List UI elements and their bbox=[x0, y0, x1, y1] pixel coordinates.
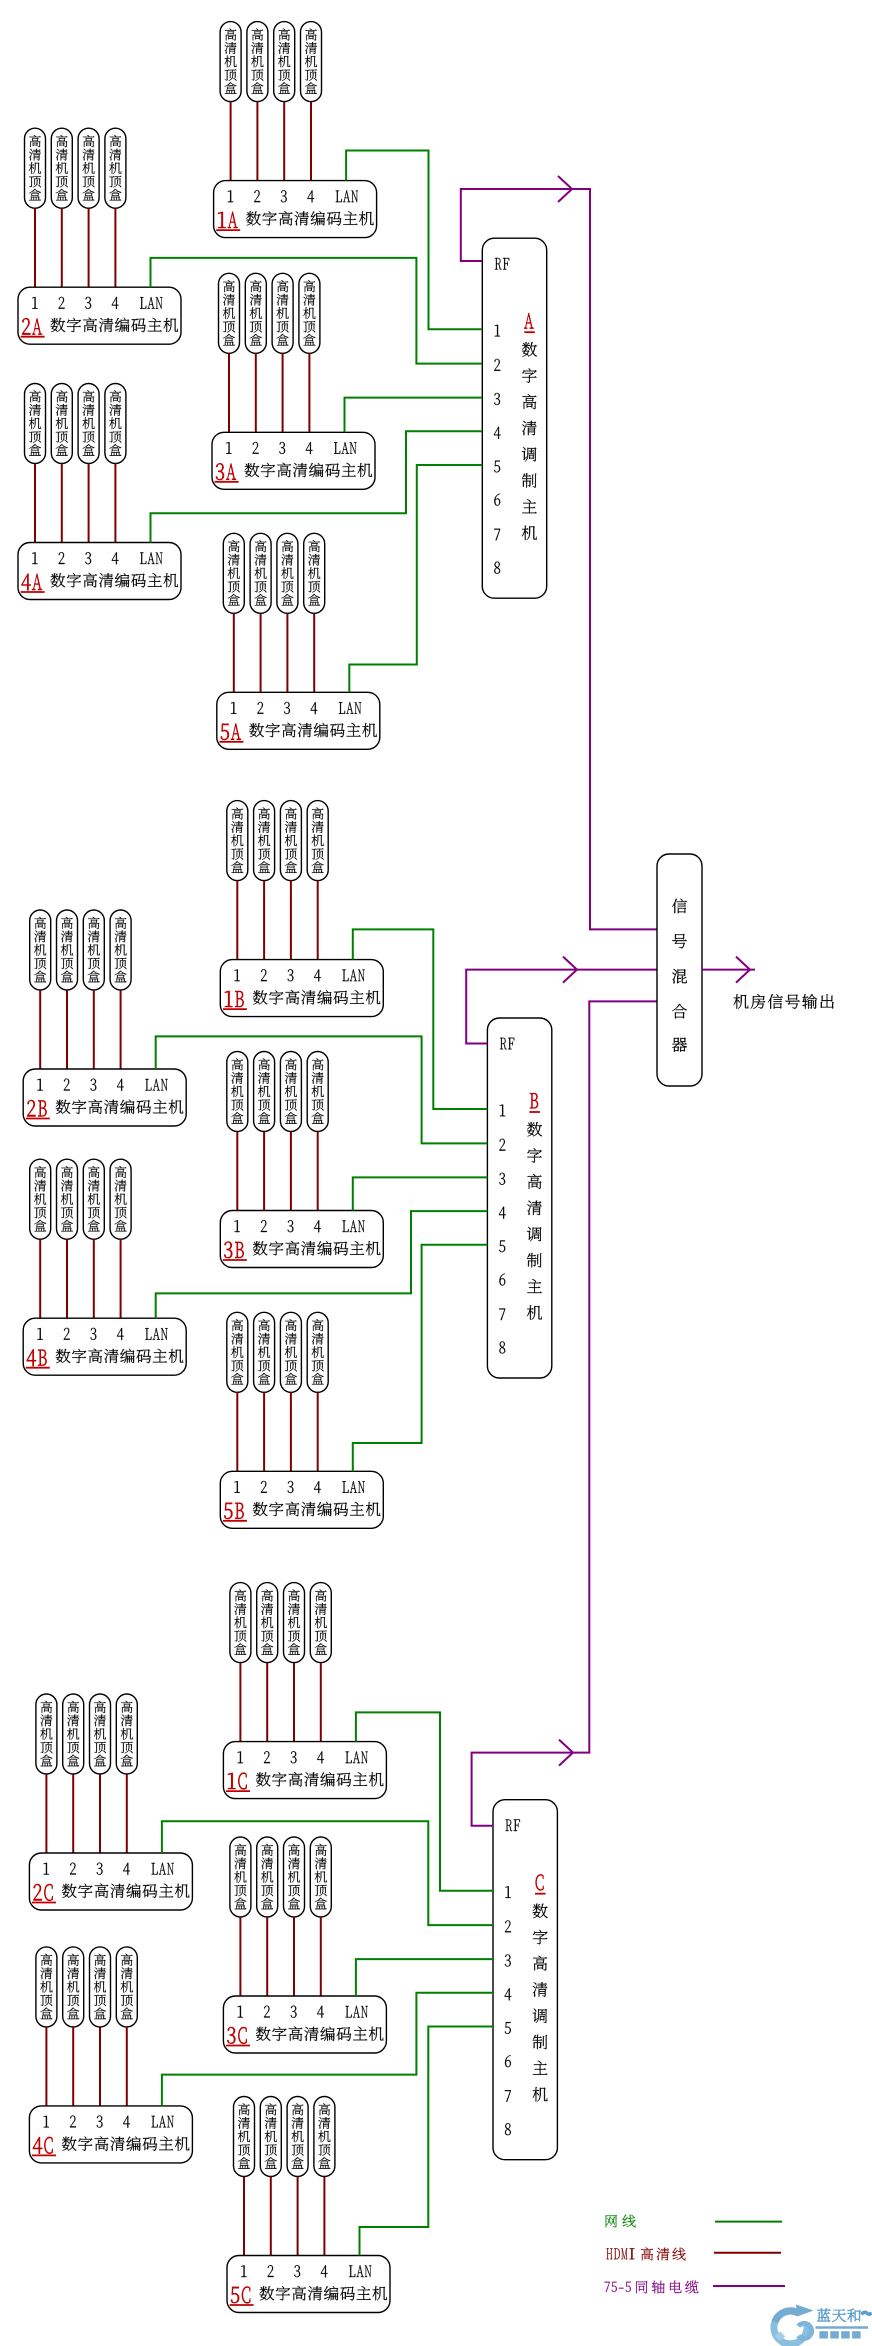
network cable 2B LAN → modulator B port 2 bbox=[156, 1036, 488, 1143]
watermark divider line bbox=[816, 2326, 869, 2329]
set-top boxes 高清机顶盒 ×4 above encoder 1C bbox=[230, 1583, 331, 1663]
encoder 1C 数字高清编码主机 (box with ports 1-4, LAN) bbox=[223, 1742, 386, 1799]
network cable 3A LAN → modulator A port 3 bbox=[345, 398, 483, 433]
encoder 2B 数字高清编码主机 (box with ports 1-4, LAN) bbox=[23, 1069, 186, 1126]
set-top boxes 高清机顶盒 ×4 above encoder 4C bbox=[36, 1947, 137, 2027]
watermark logo ring (light blue swirl) bbox=[774, 2311, 807, 2344]
set-top boxes 高清机顶盒 ×4 above encoder 4A bbox=[25, 384, 126, 464]
set-top boxes 高清机顶盒 ×4 above encoder 3B bbox=[227, 1052, 328, 1132]
network cable 5B LAN → modulator B port 5 bbox=[353, 1245, 488, 1472]
watermark inner small swirl bbox=[798, 2324, 811, 2339]
HDMI cables from set-top boxes into encoder 2A ports 1-4 bbox=[35, 208, 115, 287]
HDMI cables from set-top boxes into encoder 3C ports 1-4 bbox=[240, 1917, 320, 1996]
encoder 2C 数字高清编码主机 (box with ports 1-4, LAN) bbox=[29, 1853, 192, 1910]
network cable 1A LAN → modulator A port 1 bbox=[346, 151, 482, 330]
HDMI cables from set-top boxes into encoder 1A ports 1-4 bbox=[231, 102, 311, 181]
set-top boxes 高清机顶盒 ×4 above encoder 1B bbox=[227, 801, 328, 881]
set-top boxes 高清机顶盒 ×4 above encoder 3A bbox=[219, 273, 320, 353]
modulator C 数字高清调制主机 (RF out, ports 1-8) bbox=[493, 1800, 557, 2160]
coax 75-5 modulator B RF → mixer middle input bbox=[466, 970, 657, 1044]
set-top boxes 高清机顶盒 ×4 above encoder 2C bbox=[36, 1694, 137, 1774]
arrowhead on coax A bbox=[558, 176, 572, 202]
network cable 4B LAN → modulator B port 4 bbox=[156, 1211, 488, 1318]
watermark wavy tail bbox=[862, 2312, 872, 2314]
network cable 1C LAN → modulator C port 1 bbox=[356, 1712, 493, 1890]
legend line network cable bbox=[715, 2221, 782, 2223]
HDMI cables from set-top boxes into encoder 5A ports 1-4 bbox=[234, 613, 314, 692]
encoder 5C 数字高清编码主机 (box with ports 1-4, LAN) bbox=[227, 2256, 390, 2313]
encoder 3C 数字高清编码主机 (box with ports 1-4, LAN) bbox=[223, 1996, 386, 2053]
HDMI cables from set-top boxes into encoder 5B ports 1-4 bbox=[237, 1392, 317, 1471]
set-top boxes 高清机顶盒 ×4 above encoder 5C bbox=[234, 2097, 335, 2177]
network cable 4C LAN → modulator C port 4 bbox=[162, 1993, 493, 2106]
network cable 3C LAN → modulator C port 3 bbox=[356, 1959, 493, 1996]
HDMI cables from set-top boxes into encoder 5C ports 1-4 bbox=[244, 2177, 324, 2256]
network cable 2A LAN → modulator A port 2 bbox=[151, 258, 483, 364]
set-top boxes 高清机顶盒 ×4 above encoder 3C bbox=[230, 1837, 331, 1917]
modulator B 数字高清调制主机 (RF out, ports 1-8) bbox=[487, 1018, 551, 1378]
set-top boxes 高清机顶盒 ×4 above encoder 5B bbox=[227, 1312, 328, 1392]
legend text HDMI高清线 bbox=[606, 2247, 685, 2260]
modulator A 数字高清调制主机 (RF out, ports 1-8) bbox=[482, 238, 546, 598]
legend line coax cable bbox=[713, 2285, 785, 2287]
HDMI cables from set-top boxes into encoder 4B ports 1-4 bbox=[40, 1239, 120, 1318]
encoder 3B 数字高清编码主机 (box with ports 1-4, LAN) bbox=[220, 1211, 383, 1268]
HDMI cables from set-top boxes into encoder 1B ports 1-4 bbox=[237, 881, 317, 960]
network cable 4A LAN → modulator A port 4 bbox=[151, 431, 483, 542]
HDMI cables from set-top boxes into encoder 3A ports 1-4 bbox=[229, 353, 309, 432]
HDMI cables from set-top boxes into encoder 3B ports 1-4 bbox=[237, 1132, 317, 1211]
set-top boxes 高清机顶盒 ×4 above encoder 2B bbox=[30, 910, 131, 990]
arrowhead on coax B bbox=[563, 957, 577, 983]
network cable 2C LAN → modulator C port 2 bbox=[162, 1821, 493, 1925]
watermark logo top swoosh with arrow tip bbox=[775, 2311, 799, 2322]
HDMI cables from set-top boxes into encoder 4C ports 1-4 bbox=[46, 2027, 126, 2106]
watermark small diamond bbox=[775, 2332, 785, 2342]
signal mixer 信号混合器 bbox=[657, 854, 702, 1086]
set-top boxes 高清机顶盒 ×4 above encoder 1A bbox=[220, 22, 321, 102]
label 机房信号输出 bbox=[734, 994, 834, 1009]
network cable 3B LAN → modulator B port 3 bbox=[353, 1177, 488, 1210]
encoder 2A 数字高清编码主机 (box with ports 1-4, LAN) bbox=[18, 287, 181, 344]
set-top boxes 高清机顶盒 ×4 above encoder 4B bbox=[30, 1159, 131, 1239]
watermark text 蓝天和~ bbox=[817, 2309, 860, 2322]
HDMI cables from set-top boxes into encoder 1C ports 1-4 bbox=[240, 1663, 320, 1742]
legend text 75-5同轴电缆 (coax) bbox=[605, 2281, 699, 2294]
network cable 5A LAN → modulator A port 5 bbox=[349, 465, 482, 692]
network cable 5C LAN → modulator C port 5 bbox=[360, 2027, 494, 2256]
encoder 4A 数字高清编码主机 (box with ports 1-4, LAN) bbox=[18, 543, 181, 600]
encoder 1B 数字高清编码主机 (box with ports 1-4, LAN) bbox=[220, 960, 383, 1017]
arrowhead on mixer output bbox=[736, 957, 750, 983]
HDMI cables from set-top boxes into encoder 4A ports 1-4 bbox=[35, 464, 115, 543]
watermark small text row (four glyph blobs) bbox=[819, 2331, 860, 2338]
coax 75-5 modulator C RF → mixer lower input bbox=[472, 1001, 657, 1825]
set-top boxes 高清机顶盒 ×4 above encoder 5A bbox=[223, 533, 324, 613]
encoder 4C 数字高清编码主机 (box with ports 1-4, LAN) bbox=[29, 2106, 192, 2163]
coax output from mixer 机房信号输出 bbox=[702, 969, 755, 971]
encoder 1A 数字高清编码主机 (box with ports 1-4, LAN) bbox=[214, 181, 377, 238]
encoder 5A 数字高清编码主机 (box with ports 1-4, LAN) bbox=[217, 692, 380, 749]
HDMI cables from set-top boxes into encoder 2C ports 1-4 bbox=[46, 1774, 126, 1853]
encoder 5B 数字高清编码主机 (box with ports 1-4, LAN) bbox=[220, 1471, 383, 1528]
encoder 3A 数字高清编码主机 (box with ports 1-4, LAN) bbox=[212, 432, 375, 489]
set-top boxes 高清机顶盒 ×4 above encoder 2A bbox=[25, 128, 126, 208]
network cable 1B LAN → modulator B port 1 bbox=[353, 929, 488, 1109]
arrowhead on coax C bbox=[559, 1740, 573, 1766]
legend text 网线 (network cable) bbox=[606, 2215, 636, 2228]
legend line HDMI cable bbox=[714, 2252, 781, 2254]
encoder 4B 数字高清编码主机 (box with ports 1-4, LAN) bbox=[23, 1318, 186, 1375]
coax 75-5 modulator A RF → mixer upper input bbox=[461, 189, 657, 929]
HDMI cables from set-top boxes into encoder 2B ports 1-4 bbox=[40, 990, 120, 1069]
